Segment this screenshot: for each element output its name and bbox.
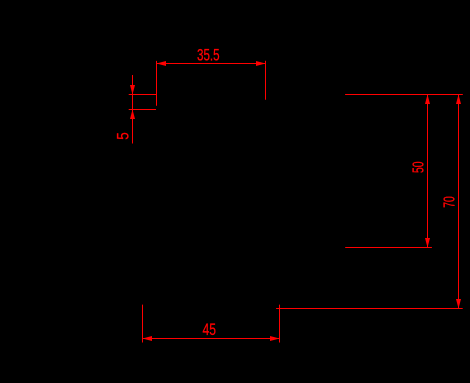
dimension 70: bottom extension line [276,308,463,310]
arrowhead 35.5 right [256,61,266,66]
dimension 5: dimension line (vertical) [132,75,134,144]
svg-text:35.5: 35.5 [197,45,220,64]
dimension 45: left extension line [142,305,144,343]
arrowhead 45 left [143,336,153,341]
arrowhead 45 right [270,336,280,341]
dimension 5: top extension line [129,94,157,96]
shared top extension line for 50 and 70 [345,94,463,96]
dimension 50: bottom extension line [345,247,432,249]
dimension 45: right extension line [279,305,281,343]
dimension 70: dimension line (vertical) [458,95,460,309]
svg-text:45: 45 [203,320,217,339]
svg-text:5: 5 [114,132,133,140]
arrowhead 35.5 left [157,61,167,66]
dimension 5: bottom extension line [129,109,156,111]
dimension 35.5: dimension line [157,63,266,65]
arrowhead 5 top (points down) [130,85,135,95]
arrowhead 70 bottom (points down) [456,299,461,309]
dimension 50: dimension line (vertical) [427,95,429,248]
arrowhead 70 top (points up) [456,95,461,105]
arrowhead 5 bottom (points up) [130,110,135,120]
arrowhead 50 bottom (points down) [425,238,430,248]
dimension 35.5: right extension line [265,61,267,100]
svg-text:70: 70 [442,196,459,208]
dimension 45: dimension line [143,338,280,340]
svg-text:50: 50 [411,161,428,173]
dimension 35.5: left extension line [156,61,158,106]
arrowhead 50 top (points up) [425,95,430,105]
